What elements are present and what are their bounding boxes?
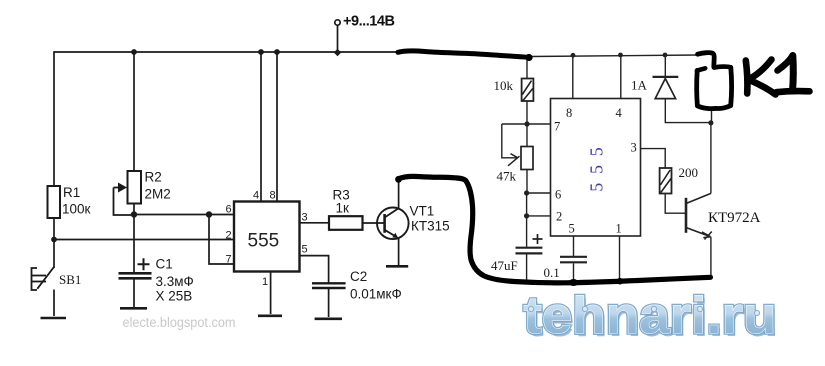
wire 0.1 bottom [573, 264, 575, 282]
svg-text:0.01мкФ: 0.01мкФ [350, 287, 402, 302]
wire diode to collector node [665, 99, 711, 123]
svg-text:6: 6 [555, 188, 561, 202]
resistor 47k trimmer [497, 147, 534, 184]
svg-text:4: 4 [616, 106, 623, 120]
svg-text:8: 8 [270, 190, 276, 202]
capacitor C2 [312, 269, 402, 302]
wire 47k bottom [526, 170, 528, 194]
svg-text:C2: C2 [350, 269, 367, 284]
wire R2 bottom [133, 204, 135, 216]
svg-text:R1: R1 [63, 185, 80, 200]
thick wire rail overdraw [398, 51, 533, 61]
wire pin1 down [270, 272, 272, 315]
svg-text:1к: 1к [336, 201, 350, 216]
wire top rail right [531, 55, 699, 57]
wire 10k top [526, 58, 528, 79]
resistor 200 [660, 165, 698, 194]
wire 10k bottom [526, 101, 528, 124]
svg-text:1A: 1A [631, 78, 648, 93]
wire VT1 emitter down [398, 239, 400, 266]
resistor R3 [329, 188, 363, 230]
wire pin2 line U1 [54, 239, 234, 241]
svg-text:10k: 10k [494, 78, 514, 93]
node rail pin4 U2 [618, 53, 623, 58]
wire relay bottom [711, 109, 713, 123]
wire collector up [710, 123, 712, 193]
svg-text:3.3мФ: 3.3мФ [156, 274, 194, 289]
node pin2 U2 [524, 213, 529, 218]
wire C1 bottom [133, 280, 135, 308]
pin labels U1 [226, 190, 308, 289]
resistor R1 [48, 185, 91, 218]
wire pin2 line U2 [527, 215, 551, 217]
transistor KT972A [686, 193, 761, 239]
transistor VT1 KT315 [377, 204, 450, 240]
op-amp U1 555 [234, 202, 300, 272]
svg-text:0.1: 0.1 [544, 265, 560, 280]
ground under C2 [315, 317, 342, 320]
node rail diode [663, 53, 668, 58]
node R1/SB1 junction [51, 237, 57, 243]
wire pin3 to R3 [300, 222, 330, 224]
pin labels U2 [554, 106, 637, 236]
svg-text:R2: R2 [145, 170, 162, 185]
wire pin4 column [260, 52, 262, 202]
node rail pin8 column [274, 49, 280, 55]
svg-text:КТ972А: КТ972А [708, 210, 761, 226]
node diode/relay/collector [708, 120, 713, 125]
svg-text:2М2: 2М2 [145, 187, 171, 202]
wire pin6 line U1 [134, 214, 234, 216]
capacitor 0.1 [544, 257, 588, 280]
resistor R2 trimmer [114, 170, 171, 216]
wire pin8 column [276, 52, 278, 202]
wire 200 to base [665, 194, 686, 214]
svg-text:+9...14В: +9...14В [343, 14, 395, 30]
wire emitter down [710, 237, 712, 278]
button SB1 [32, 267, 82, 291]
svg-text:4: 4 [253, 190, 259, 202]
svg-text:47uF: 47uF [491, 258, 518, 273]
wire C2 bottom [328, 289, 330, 317]
wire R1 bottom [53, 218, 55, 240]
node rail pin8 U2 [571, 53, 576, 58]
wire pin4 column U2 [620, 55, 622, 99]
svg-text:КТ315: КТ315 [411, 219, 450, 234]
svg-text:C1: C1 [156, 257, 173, 272]
wire SB1 bottom [53, 290, 55, 317]
wire left drop to R1 [53, 51, 55, 186]
ground under SB1 [41, 317, 67, 320]
svg-text:6: 6 [226, 204, 232, 216]
wire top rail left [54, 51, 400, 53]
wire pin5 to 0.1 [573, 236, 575, 256]
op-amp U2 555 [551, 99, 641, 237]
node rail pin4 column [258, 49, 264, 55]
wire 47k wiper [502, 124, 520, 166]
svg-text:555: 555 [248, 231, 280, 252]
wire pin5 to C2 [300, 256, 329, 283]
svg-text:SB1: SB1 [59, 272, 81, 287]
resistor 10k [494, 78, 534, 101]
wire SB1 top [53, 240, 55, 269]
node R2/C1 junction [131, 211, 137, 217]
ground under pin1 [258, 314, 282, 317]
capacitor 47uF [491, 234, 543, 273]
svg-text:555: 555 [587, 138, 607, 191]
svg-text:2: 2 [556, 210, 562, 224]
watermark tehnari.ru [524, 287, 779, 348]
wire rail to R2 [133, 52, 135, 171]
node 10k pin7 [524, 121, 529, 126]
wire pin1 down U2 [619, 236, 621, 281]
svg-text:1: 1 [262, 276, 268, 288]
wire pin7 line U2 [502, 123, 551, 125]
svg-text:electe.blogspot.com: electe.blogspot.com [123, 315, 236, 330]
svg-text:5: 5 [302, 244, 308, 256]
wire C1 top [133, 215, 135, 273]
thick wire VT1 collector to bottom bus [395, 176, 710, 283]
svg-text:3: 3 [302, 212, 308, 224]
wire pin8 column U2 [572, 55, 574, 99]
svg-text:VT1: VT1 [410, 204, 435, 219]
svg-text:1: 1 [616, 222, 622, 236]
svg-text:7: 7 [226, 254, 232, 266]
node pin6 U2 [524, 190, 529, 195]
ground under VT1 [386, 265, 408, 268]
wire pin6 line U2 [527, 192, 551, 194]
wire to 47uF [526, 193, 528, 247]
svg-text:7: 7 [554, 120, 560, 134]
svg-text:X 25В: X 25В [156, 289, 193, 304]
wire VT1 collector up [398, 180, 400, 208]
wire 47uF bottom [526, 255, 528, 282]
node pin6/pin7 branch [206, 211, 212, 217]
svg-text:8: 8 [566, 106, 572, 120]
svg-text:2: 2 [226, 230, 232, 242]
power terminal +9...14V [334, 14, 395, 57]
wire 47k top [526, 124, 528, 147]
capacitor C1 [119, 257, 194, 304]
wire branch to pin7 [209, 215, 234, 265]
wire pin3 U2 [641, 149, 666, 168]
diode VD1 1A [631, 55, 678, 99]
svg-text:47k: 47k [497, 169, 517, 184]
node thick 0.1 junction [569, 279, 579, 286]
svg-text:200: 200 [679, 165, 699, 180]
svg-text:3: 3 [631, 141, 637, 155]
node thick pin1 junction [617, 278, 624, 285]
label K1 handwritten [746, 56, 810, 95]
ground under C1 [120, 307, 147, 310]
svg-text:100к: 100к [62, 202, 91, 217]
svg-text:5: 5 [569, 222, 575, 236]
relay K1 coil [697, 53, 732, 109]
svg-text:tehnari.ru: tehnari.ru [524, 287, 777, 345]
watermark electe.blogspot.com [123, 315, 236, 330]
node rail R2 junction [131, 49, 137, 55]
wire R3 to VT1 base [363, 222, 385, 224]
